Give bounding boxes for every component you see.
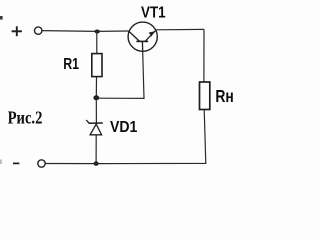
- wire right rail down to Rн: [203, 29, 205, 82]
- junction node: R1 / VD1 / VT1 base: [93, 95, 99, 100]
- wire VD1 top lead: [95, 98, 97, 123]
- svg-text:Рис.2: Рис.2: [8, 108, 43, 128]
- svg-text:R1: R1: [63, 56, 79, 73]
- wire base: junction to corner below VT1: [96, 52, 144, 99]
- transistor VT1: [128, 22, 157, 51]
- wire R1 bottom lead: [95, 77, 97, 98]
- svg-text:VT1: VT1: [141, 5, 166, 22]
- wire R1 top lead: [96, 32, 98, 54]
- junction node: VD1 / bottom rail: [94, 161, 99, 165]
- svg-text:VD1: VD1: [110, 119, 138, 136]
- label - (negative terminal): [13, 162, 19, 164]
- label + (positive input terminal): [12, 26, 22, 36]
- edge mark top-left: [0, 16, 3, 20]
- wire bottom rail: junction to - terminal: [45, 163, 96, 165]
- resistor R1: [92, 54, 102, 77]
- terminal - output (open circle): [38, 160, 45, 167]
- zener diode VD1: [86, 120, 103, 135]
- wire top rail left: + terminal to R1 junction: [42, 30, 97, 33]
- junction node: top rail / R1: [95, 30, 100, 34]
- wire top rail right: VT1 emitter to right corner: [156, 28, 204, 30]
- wire top rail: junction to VT1 collector entry: [97, 30, 129, 32]
- terminal + input (open circle): [35, 27, 42, 34]
- wire VD1 bottom lead: [95, 135, 97, 164]
- resistor Rн (load): [200, 82, 210, 110]
- svg-text:Rн: Rн: [215, 86, 233, 106]
- edge mark bottom-left: [0, 160, 2, 165]
- wire Rн bottom lead to bottom-right corner: [96, 110, 206, 164]
